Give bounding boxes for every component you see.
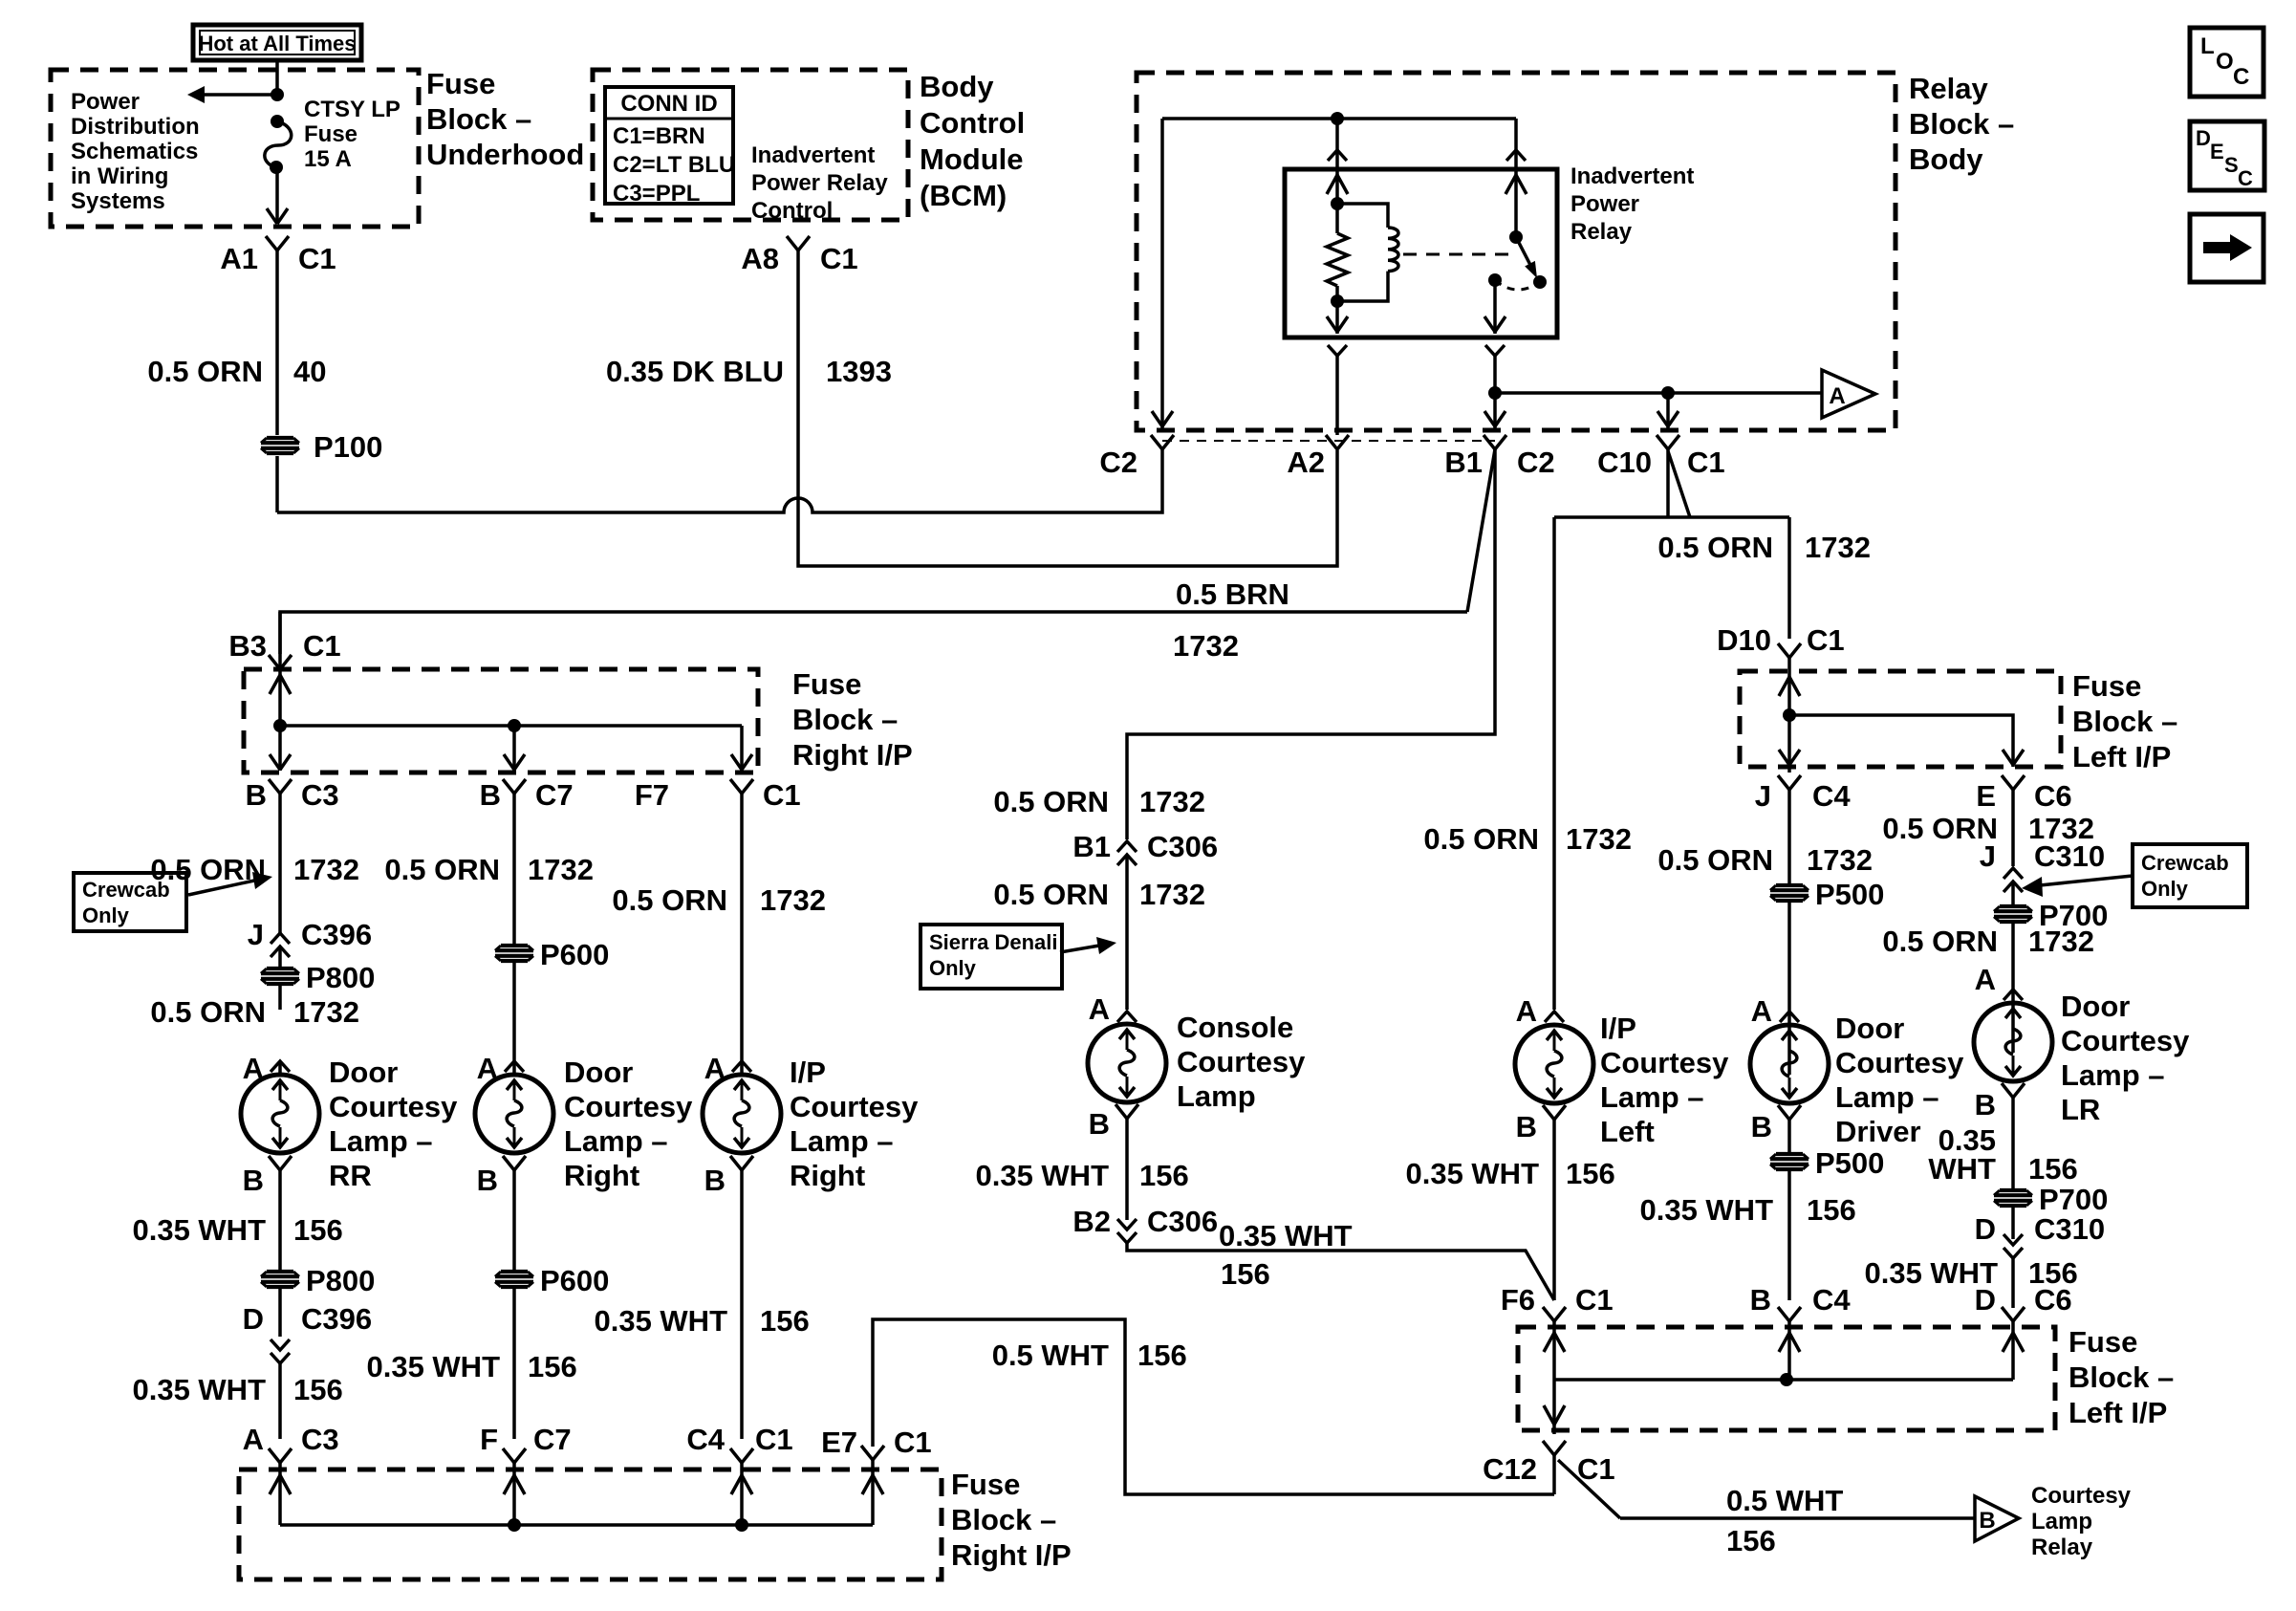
svg-text:0.35 WHT: 0.35 WHT — [1405, 1157, 1539, 1190]
dashed arc: switch travel — [1495, 280, 1540, 290]
svg-text:Systems: Systems — [71, 188, 165, 214]
svg-text:E: E — [2210, 140, 2224, 163]
wire: A chevron to lamp — [278, 1061, 282, 1075]
svg-text:1732: 1732 — [1173, 629, 1239, 663]
wire: E7 riser — [873, 1319, 1554, 1494]
svg-text:1732: 1732 — [2028, 925, 2094, 958]
svg-text:C2: C2 — [1099, 446, 1137, 479]
svg-text:156: 156 — [1221, 1257, 1270, 1291]
connector double-chevron B2/C306 — [1117, 1219, 1137, 1230]
svg-text:Crewcab: Crewcab — [82, 878, 170, 902]
svg-text:Lamp –: Lamp – — [1835, 1080, 1939, 1114]
svg-text:156: 156 — [2028, 1152, 2078, 1186]
wire: left IP bus horizontal — [1789, 715, 2013, 767]
svg-text:0.35 DK BLU: 0.35 DK BLU — [606, 355, 784, 388]
arrow: col1 exits block — [270, 754, 291, 770]
svg-text:C7: C7 — [533, 1423, 572, 1456]
svg-text:D: D — [243, 1302, 264, 1336]
grommet P600 (bottom) — [495, 1272, 533, 1287]
grommet P500 (bottom) — [1770, 1154, 1809, 1169]
svg-text:1732: 1732 — [1807, 843, 1873, 877]
wire: J/C310 to P700 — [2011, 882, 2015, 905]
wire: console B down — [1125, 1119, 1129, 1220]
svg-text:O: O — [2216, 49, 2234, 75]
svg-text:Relay: Relay — [2031, 1535, 2093, 1560]
svg-text:156: 156 — [293, 1373, 343, 1406]
connector Y C12/C1 — [1543, 1441, 1566, 1455]
connector Y below LR lamp — [2002, 1083, 2025, 1098]
svg-text:156: 156 — [1726, 1524, 1776, 1557]
wire: 0.5 BRN 1732 horizontal — [280, 612, 1467, 654]
connector Y below lamp IP right — [730, 1156, 753, 1170]
wire: col1 into bottom block — [278, 1463, 282, 1525]
svg-text:0.5 ORN: 0.5 ORN — [1423, 822, 1539, 856]
node: switch pivot — [1509, 230, 1523, 244]
svg-text:B: B — [1979, 1508, 1995, 1534]
wire: A2 vertical to connector — [1335, 356, 1339, 435]
svg-text:Left I/P: Left I/P — [2069, 1396, 2167, 1429]
connector Y J/C4 — [1778, 775, 1801, 790]
svg-text:0.5 ORN: 0.5 ORN — [1657, 531, 1773, 564]
connector Y D10/C1 — [1778, 643, 1801, 658]
svg-text:D10: D10 — [1717, 623, 1771, 657]
svg-text:Relay: Relay — [1909, 72, 1988, 105]
svg-text:156: 156 — [1807, 1193, 1856, 1227]
chevron: LR lamp terminal A — [2004, 990, 2023, 1000]
svg-text:L: L — [2200, 33, 2215, 59]
connector Y B/C3 — [269, 779, 292, 794]
connector Y A8/C1 — [787, 236, 810, 250]
resistor R (relay shunt) — [1327, 233, 1348, 286]
chevron: lamp RR terminal A — [271, 1061, 290, 1072]
svg-text:P600: P600 — [540, 938, 609, 971]
arrow: col1 into bottom block — [270, 1475, 291, 1494]
node: left IP bus junction — [1783, 708, 1796, 722]
svg-text:156: 156 — [1137, 1339, 1187, 1372]
arrow: into underhood block edge — [267, 208, 288, 224]
wire: P500 to lamp A (driver) — [1787, 902, 1791, 1075]
wire: B1 vertical down to console branch — [1127, 449, 1495, 839]
svg-text:1732: 1732 — [1566, 822, 1632, 856]
svg-text:C3: C3 — [301, 1423, 339, 1456]
svg-text:P100: P100 — [314, 430, 382, 464]
svg-text:RR: RR — [329, 1159, 372, 1192]
grommet P800 (top) — [261, 969, 299, 984]
svg-text:Console: Console — [1177, 1011, 1293, 1044]
grommet P800 (bottom) — [261, 1272, 299, 1287]
svg-text:Hot at All Times: Hot at All Times — [198, 32, 356, 55]
svg-text:0.35 WHT: 0.35 WHT — [594, 1304, 727, 1338]
wire: hot feed into fuse — [275, 60, 279, 95]
svg-text:Distribution: Distribution — [71, 114, 200, 140]
arrow: B/C4 into block — [1779, 1333, 1800, 1352]
chevron: switch branch above relay box — [1506, 150, 1526, 161]
svg-text:I/P: I/P — [790, 1056, 826, 1089]
svg-text:in Wiring: in Wiring — [71, 163, 168, 189]
svg-text:C1: C1 — [820, 242, 858, 275]
node: fuse top — [271, 115, 284, 128]
wire: P800 to lamp A — [278, 985, 282, 1010]
arrow: B1 into block edge — [1484, 411, 1505, 426]
svg-text:E7: E7 — [821, 1426, 857, 1459]
svg-text:0.5 ORN: 0.5 ORN — [993, 878, 1109, 911]
wire: D10 into block — [1787, 658, 1791, 773]
svg-text:Fuse: Fuse — [792, 667, 861, 701]
wire: P800 to D chevrons — [278, 1288, 282, 1337]
wire: lamp IP right B down — [740, 1170, 744, 1439]
icon box: arrow — [2190, 214, 2264, 282]
connector Y below driver lamp — [1778, 1105, 1801, 1120]
svg-text:Courtesy: Courtesy — [329, 1090, 458, 1123]
svg-text:0.5 ORN: 0.5 ORN — [1657, 843, 1773, 877]
svg-text:0.35 WHT: 0.35 WHT — [366, 1350, 500, 1383]
wire: B3 into block — [278, 669, 282, 726]
wire: lamp Right B down — [512, 1170, 516, 1271]
coil L (relay winding) — [1337, 204, 1388, 228]
wire: bus drop col3 — [740, 726, 744, 771]
svg-text:Sierra Denali: Sierra Denali — [929, 930, 1058, 954]
svg-text:Power Relay: Power Relay — [751, 170, 888, 196]
dashed box: Fuse Block - Right I/P (bottom) — [239, 1469, 942, 1579]
svg-text:0.5 WHT: 0.5 WHT — [992, 1339, 1109, 1372]
wire: relay feed top horizontal — [1162, 117, 1516, 120]
svg-text:B: B — [1975, 1088, 1996, 1121]
svg-text:P700: P700 — [2039, 1183, 2108, 1216]
dashed box: Power Distribution Schematics (Fuse Block - Underhood) — [51, 70, 419, 227]
lamp: Door Courtesy Lamp - RR — [241, 1075, 319, 1153]
svg-text:Only: Only — [2141, 877, 2189, 901]
svg-text:P800: P800 — [306, 1264, 375, 1297]
svg-text:Underhood: Underhood — [426, 138, 584, 171]
svg-text:Lamp –: Lamp – — [564, 1124, 668, 1158]
node: bottom bus junction driver — [1780, 1373, 1793, 1386]
node: C10 junction — [1661, 386, 1675, 400]
svg-text:B: B — [1089, 1107, 1110, 1141]
svg-text:A: A — [243, 1423, 264, 1456]
grommet P500 (top) — [1770, 885, 1809, 901]
arrow: F6 exits block bottom — [1544, 1405, 1565, 1425]
chevron: lamp Right terminal A — [505, 1061, 524, 1072]
dashed line: connector boundary C2-B1 — [1162, 440, 1495, 442]
svg-text:Relay: Relay — [1570, 219, 1633, 245]
svg-text:156: 156 — [1566, 1157, 1615, 1190]
svg-text:B: B — [243, 1164, 264, 1197]
dashed box: Body Control Module (BCM) — [593, 70, 908, 220]
chevron: lamp IP right terminal A — [732, 1061, 751, 1072]
svg-text:C310: C310 — [2034, 839, 2105, 873]
svg-text:A: A — [1829, 383, 1845, 409]
wire: col3 into bottom block — [740, 1463, 744, 1525]
svg-text:Courtesy: Courtesy — [1835, 1046, 1964, 1079]
wire: C2 output vertical — [1160, 119, 1164, 428]
chevron: console lamp terminal A — [1117, 1012, 1137, 1022]
svg-text:C3: C3 — [301, 778, 339, 812]
svg-text:0.35 WHT: 0.35 WHT — [132, 1373, 266, 1406]
svg-text:Right: Right — [564, 1159, 639, 1192]
arrow: F6 into block — [1544, 1333, 1565, 1352]
wire: bus drop col1 — [278, 726, 282, 771]
wire: E7 into bottom block — [871, 1460, 875, 1525]
wire: col1 0.5 ORN to J — [278, 794, 282, 933]
grommet P700 (top) — [1994, 906, 2032, 922]
svg-text:C1: C1 — [1687, 446, 1725, 479]
svg-text:Courtesy: Courtesy — [2031, 1483, 2132, 1509]
connector double-chevron J/C310 — [2004, 868, 2023, 879]
connector Y F7/C1 — [730, 779, 753, 794]
wire: LR B to P700 bottom — [2011, 1098, 2015, 1189]
wire: C12 tail — [1552, 1455, 1556, 1494]
grommet P700 (bottom) — [1994, 1190, 2032, 1206]
arrow: E/C6 exits block — [2003, 750, 2024, 765]
svg-text:40: 40 — [293, 355, 326, 388]
wire: left IP bottom bus — [1554, 1378, 2013, 1382]
svg-text:Left I/P: Left I/P — [2072, 740, 2171, 773]
svg-text:Block –: Block – — [2072, 705, 2177, 738]
arrow: D10 into block — [1779, 677, 1800, 696]
wire: coil branch inside relay box — [1335, 169, 1339, 233]
connector double-chevron D/C396 — [271, 1339, 290, 1350]
wire: P600 to F/C7 — [512, 1288, 516, 1439]
arrow: E7 into bottom block — [862, 1475, 883, 1494]
svg-text:Fuse: Fuse — [304, 121, 357, 147]
svg-text:A: A — [1516, 994, 1537, 1028]
wire: F6 through block — [1552, 1321, 1556, 1434]
dashed link: coil to switch — [1403, 253, 1508, 256]
svg-text:C4: C4 — [686, 1423, 725, 1456]
wire: driver B to P500 bottom — [1787, 1120, 1791, 1153]
wire: coil branch vertical — [1335, 119, 1339, 169]
connector Y C4/C1 — [730, 1448, 753, 1463]
connector Y B3/C1 — [269, 655, 292, 669]
svg-text:156: 156 — [760, 1304, 810, 1338]
svg-text:E: E — [1976, 779, 1996, 813]
svg-text:CTSY LP: CTSY LP — [304, 97, 401, 122]
node: coil top junction — [1331, 197, 1344, 210]
lamp: Door Courtesy Lamp - Right — [475, 1075, 553, 1153]
lamp: Console Courtesy Lamp — [1088, 1024, 1166, 1102]
chevron: switch branch below relay box — [1485, 345, 1505, 356]
grommet P600 (top) — [495, 946, 533, 961]
svg-text:A8: A8 — [741, 242, 779, 275]
svg-text:0.5 ORN: 0.5 ORN — [384, 853, 500, 886]
connector Y A2 — [1326, 435, 1349, 449]
svg-text:A1: A1 — [220, 242, 258, 275]
svg-text:C1: C1 — [303, 629, 341, 663]
svg-text:Control: Control — [920, 106, 1025, 140]
wire: B1 diagonal to 0.5 BRN run — [1467, 449, 1495, 612]
connector Y E/C6 — [2002, 775, 2025, 790]
svg-text:1732: 1732 — [293, 995, 359, 1029]
label box: Hot at All Times — [193, 25, 361, 60]
svg-text:B1: B1 — [1444, 446, 1483, 479]
svg-text:1732: 1732 — [1805, 531, 1871, 564]
svg-text:156: 156 — [528, 1350, 577, 1383]
arrow: C2 wire into block edge — [1152, 411, 1173, 426]
icon box: DESC — [2190, 121, 2264, 190]
svg-text:Door: Door — [329, 1056, 398, 1089]
arrow: col2 exits block — [504, 754, 525, 770]
svg-text:C396: C396 — [301, 918, 372, 951]
connector Y C10/C1 — [1657, 435, 1679, 449]
wire: col3 vertical to lamp — [740, 794, 744, 1075]
connector Y B/C4 (bottom) — [1778, 1307, 1801, 1321]
svg-text:Lamp –: Lamp – — [790, 1124, 894, 1158]
svg-text:0.35 WHT: 0.35 WHT — [1219, 1219, 1353, 1252]
svg-text:0.5 ORN: 0.5 ORN — [612, 883, 727, 917]
svg-text:Block –: Block – — [951, 1503, 1056, 1536]
svg-text:0.35 WHT: 0.35 WHT — [975, 1159, 1109, 1192]
lamp: I/P Courtesy Lamp - Right — [703, 1075, 781, 1153]
svg-text:B1: B1 — [1072, 830, 1111, 863]
svg-text:Crewcab: Crewcab — [2141, 851, 2229, 875]
svg-text:Schematics: Schematics — [71, 139, 198, 164]
svg-text:C1: C1 — [1807, 623, 1845, 657]
connector Y below ip left lamp — [1543, 1105, 1566, 1120]
dashed box: Fuse Block - Right I/P (top) — [244, 669, 758, 773]
svg-text:Door: Door — [564, 1056, 633, 1089]
svg-text:Only: Only — [82, 903, 130, 927]
svg-text:0.5 ORN: 0.5 ORN — [150, 995, 266, 1029]
table: CONN ID box — [605, 87, 733, 204]
chevron: coil branch below relay box — [1328, 345, 1347, 356]
wire: B1 vertical to connector — [1493, 356, 1497, 428]
svg-text:Body: Body — [1909, 142, 1983, 176]
connector Y C2 (left) — [1151, 435, 1174, 449]
svg-text:Only: Only — [929, 956, 977, 980]
svg-text:C1: C1 — [894, 1426, 932, 1459]
connector Y A1/C1 — [266, 236, 289, 250]
svg-text:B: B — [1750, 1283, 1771, 1317]
svg-text:D: D — [1975, 1212, 1996, 1246]
svg-text:0.35 WHT: 0.35 WHT — [132, 1213, 266, 1247]
wire: P700 to lamp A (LR) — [2011, 923, 2015, 1053]
wire: right IP bus horizontal — [280, 724, 742, 728]
svg-text:J: J — [1755, 779, 1771, 813]
wire: console to lamp — [1125, 855, 1129, 1010]
svg-text:C10: C10 — [1597, 446, 1652, 479]
svg-text:LR: LR — [2061, 1093, 2100, 1126]
wire: horizontal run to BCM C2 with hop over A8 wire — [277, 449, 1162, 512]
svg-text:J: J — [1980, 839, 1996, 873]
wire: P100 to C2 run — [275, 425, 279, 435]
node: right IP bus junction left — [273, 719, 287, 732]
svg-text:15 A: 15 A — [304, 146, 352, 172]
svg-text:C: C — [2238, 166, 2253, 190]
connector Y F/C7 — [503, 1448, 526, 1463]
connector Y A/C3 — [269, 1448, 292, 1463]
svg-text:Control: Control — [751, 198, 833, 224]
wire: switch pivot vertical — [1514, 169, 1518, 237]
svg-text:Power: Power — [71, 89, 140, 115]
node: right IP bus junction mid — [508, 719, 521, 732]
svg-text:A: A — [1751, 994, 1772, 1028]
arrow: col3 into bottom block — [731, 1475, 752, 1494]
switch arm with arrow — [1516, 237, 1531, 267]
arrow: switch output exits box — [1484, 316, 1505, 332]
node: hot feed junction — [271, 88, 284, 101]
connector Y below console lamp — [1116, 1104, 1138, 1119]
svg-text:F7: F7 — [635, 778, 669, 812]
connector double-chevron B1/C306 — [1117, 841, 1137, 852]
lamp: Door Courtesy Lamp - Driver — [1750, 1025, 1829, 1103]
connector Y F6/C1 — [1543, 1307, 1566, 1321]
svg-text:Right I/P: Right I/P — [792, 738, 913, 772]
wire: col2 into bottom block — [512, 1463, 516, 1525]
svg-text:1732: 1732 — [1139, 785, 1205, 818]
lamp: I/P Courtesy Lamp - Left — [1515, 1025, 1593, 1103]
svg-text:J: J — [248, 918, 264, 951]
svg-text:(BCM): (BCM) — [920, 179, 1007, 212]
dashed box: Relay Block - Body — [1137, 73, 1895, 430]
svg-text:C2=LT BLU: C2=LT BLU — [613, 152, 735, 178]
lamp: Door Courtesy Lamp - LR — [1974, 1003, 2052, 1081]
arrow: crewcab only to wire (left) — [188, 881, 254, 895]
wire: split horizontal — [1554, 515, 1789, 519]
wire: coil branch to box bottom — [1335, 301, 1339, 334]
svg-text:Inadvertent: Inadvertent — [751, 142, 875, 168]
svg-text:Right: Right — [790, 1159, 865, 1192]
svg-text:Inadvertent: Inadvertent — [1570, 163, 1694, 189]
svg-text:Lamp –: Lamp – — [1600, 1080, 1704, 1114]
svg-text:P500: P500 — [1815, 878, 1884, 911]
svg-text:C310: C310 — [2034, 1212, 2105, 1246]
wire: col2 vertical to P600 — [512, 794, 516, 945]
arrow: col2 into bottom block — [504, 1475, 525, 1494]
node: B1 junction to A-arrow — [1488, 386, 1502, 400]
wire: left branch down to I/P lamp left — [1552, 517, 1556, 1010]
wire: horizontal to off-page A — [1495, 391, 1822, 395]
svg-text:Module: Module — [920, 142, 1024, 176]
relay box: Inadvertent Power Relay — [1285, 169, 1557, 337]
svg-text:D: D — [2196, 126, 2211, 150]
svg-text:C: C — [2233, 64, 2249, 90]
svg-text:Courtesy: Courtesy — [564, 1090, 693, 1123]
svg-text:F: F — [480, 1423, 498, 1456]
svg-text:S: S — [2224, 153, 2239, 177]
arrow: crewcab only to wire (right) — [2040, 876, 2133, 885]
svg-text:WHT: WHT — [1928, 1152, 1996, 1186]
wire: 0.5 ORN 40 vertical — [275, 250, 279, 425]
svg-text:A2: A2 — [1287, 446, 1325, 479]
off-page arrow A — [1822, 370, 1875, 418]
svg-text:156: 156 — [293, 1213, 343, 1247]
dashed box: Fuse Block - Left I/P (bottom) — [1518, 1327, 2055, 1430]
svg-text:Fuse: Fuse — [2072, 669, 2141, 703]
svg-text:C1: C1 — [763, 778, 801, 812]
off-page arrow B — [1975, 1496, 2019, 1541]
svg-text:C1=BRN: C1=BRN — [613, 123, 705, 149]
svg-text:B: B — [480, 778, 501, 812]
svg-text:1732: 1732 — [528, 853, 594, 886]
wire: C12 diagonal to relay-B run — [1558, 1460, 1620, 1518]
connector Y below lamp RR — [269, 1156, 292, 1170]
wire: C10 diagonal branch — [1668, 451, 1690, 517]
wire: bottom bus horizontal — [280, 1523, 873, 1527]
svg-text:C1: C1 — [1575, 1283, 1614, 1317]
dashed box: Fuse Block - Left I/P (top) — [1740, 671, 2061, 767]
svg-text:Power: Power — [1570, 191, 1639, 217]
svg-text:0.5 WHT: 0.5 WHT — [1726, 1484, 1843, 1517]
arrow: coil branch exits box — [1327, 316, 1348, 332]
svg-text:0.5 ORN: 0.5 ORN — [147, 355, 263, 388]
connector Y E7/C1 — [861, 1446, 884, 1460]
svg-text:C12: C12 — [1483, 1452, 1537, 1486]
svg-text:Right I/P: Right I/P — [951, 1538, 1072, 1572]
svg-text:C4: C4 — [1812, 779, 1851, 813]
wire: fuse to fuse block edge — [275, 167, 279, 224]
arrow: D/C6 into block — [2003, 1333, 2024, 1352]
svg-text:Block –: Block – — [426, 102, 531, 136]
